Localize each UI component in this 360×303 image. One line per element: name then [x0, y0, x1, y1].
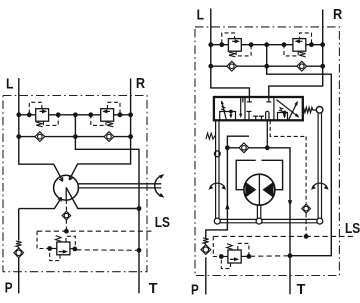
- svg-text:L: L: [6, 76, 13, 93]
- svg-text:L: L: [197, 7, 204, 24]
- svg-text:LS: LS: [345, 220, 360, 237]
- svg-text:R: R: [333, 6, 342, 23]
- svg-text:P: P: [5, 280, 13, 297]
- svg-text:P: P: [191, 281, 199, 298]
- svg-text:T: T: [297, 281, 306, 298]
- svg-text:T: T: [149, 280, 158, 297]
- svg-text:LS: LS: [155, 214, 170, 231]
- svg-text:R: R: [136, 75, 145, 92]
